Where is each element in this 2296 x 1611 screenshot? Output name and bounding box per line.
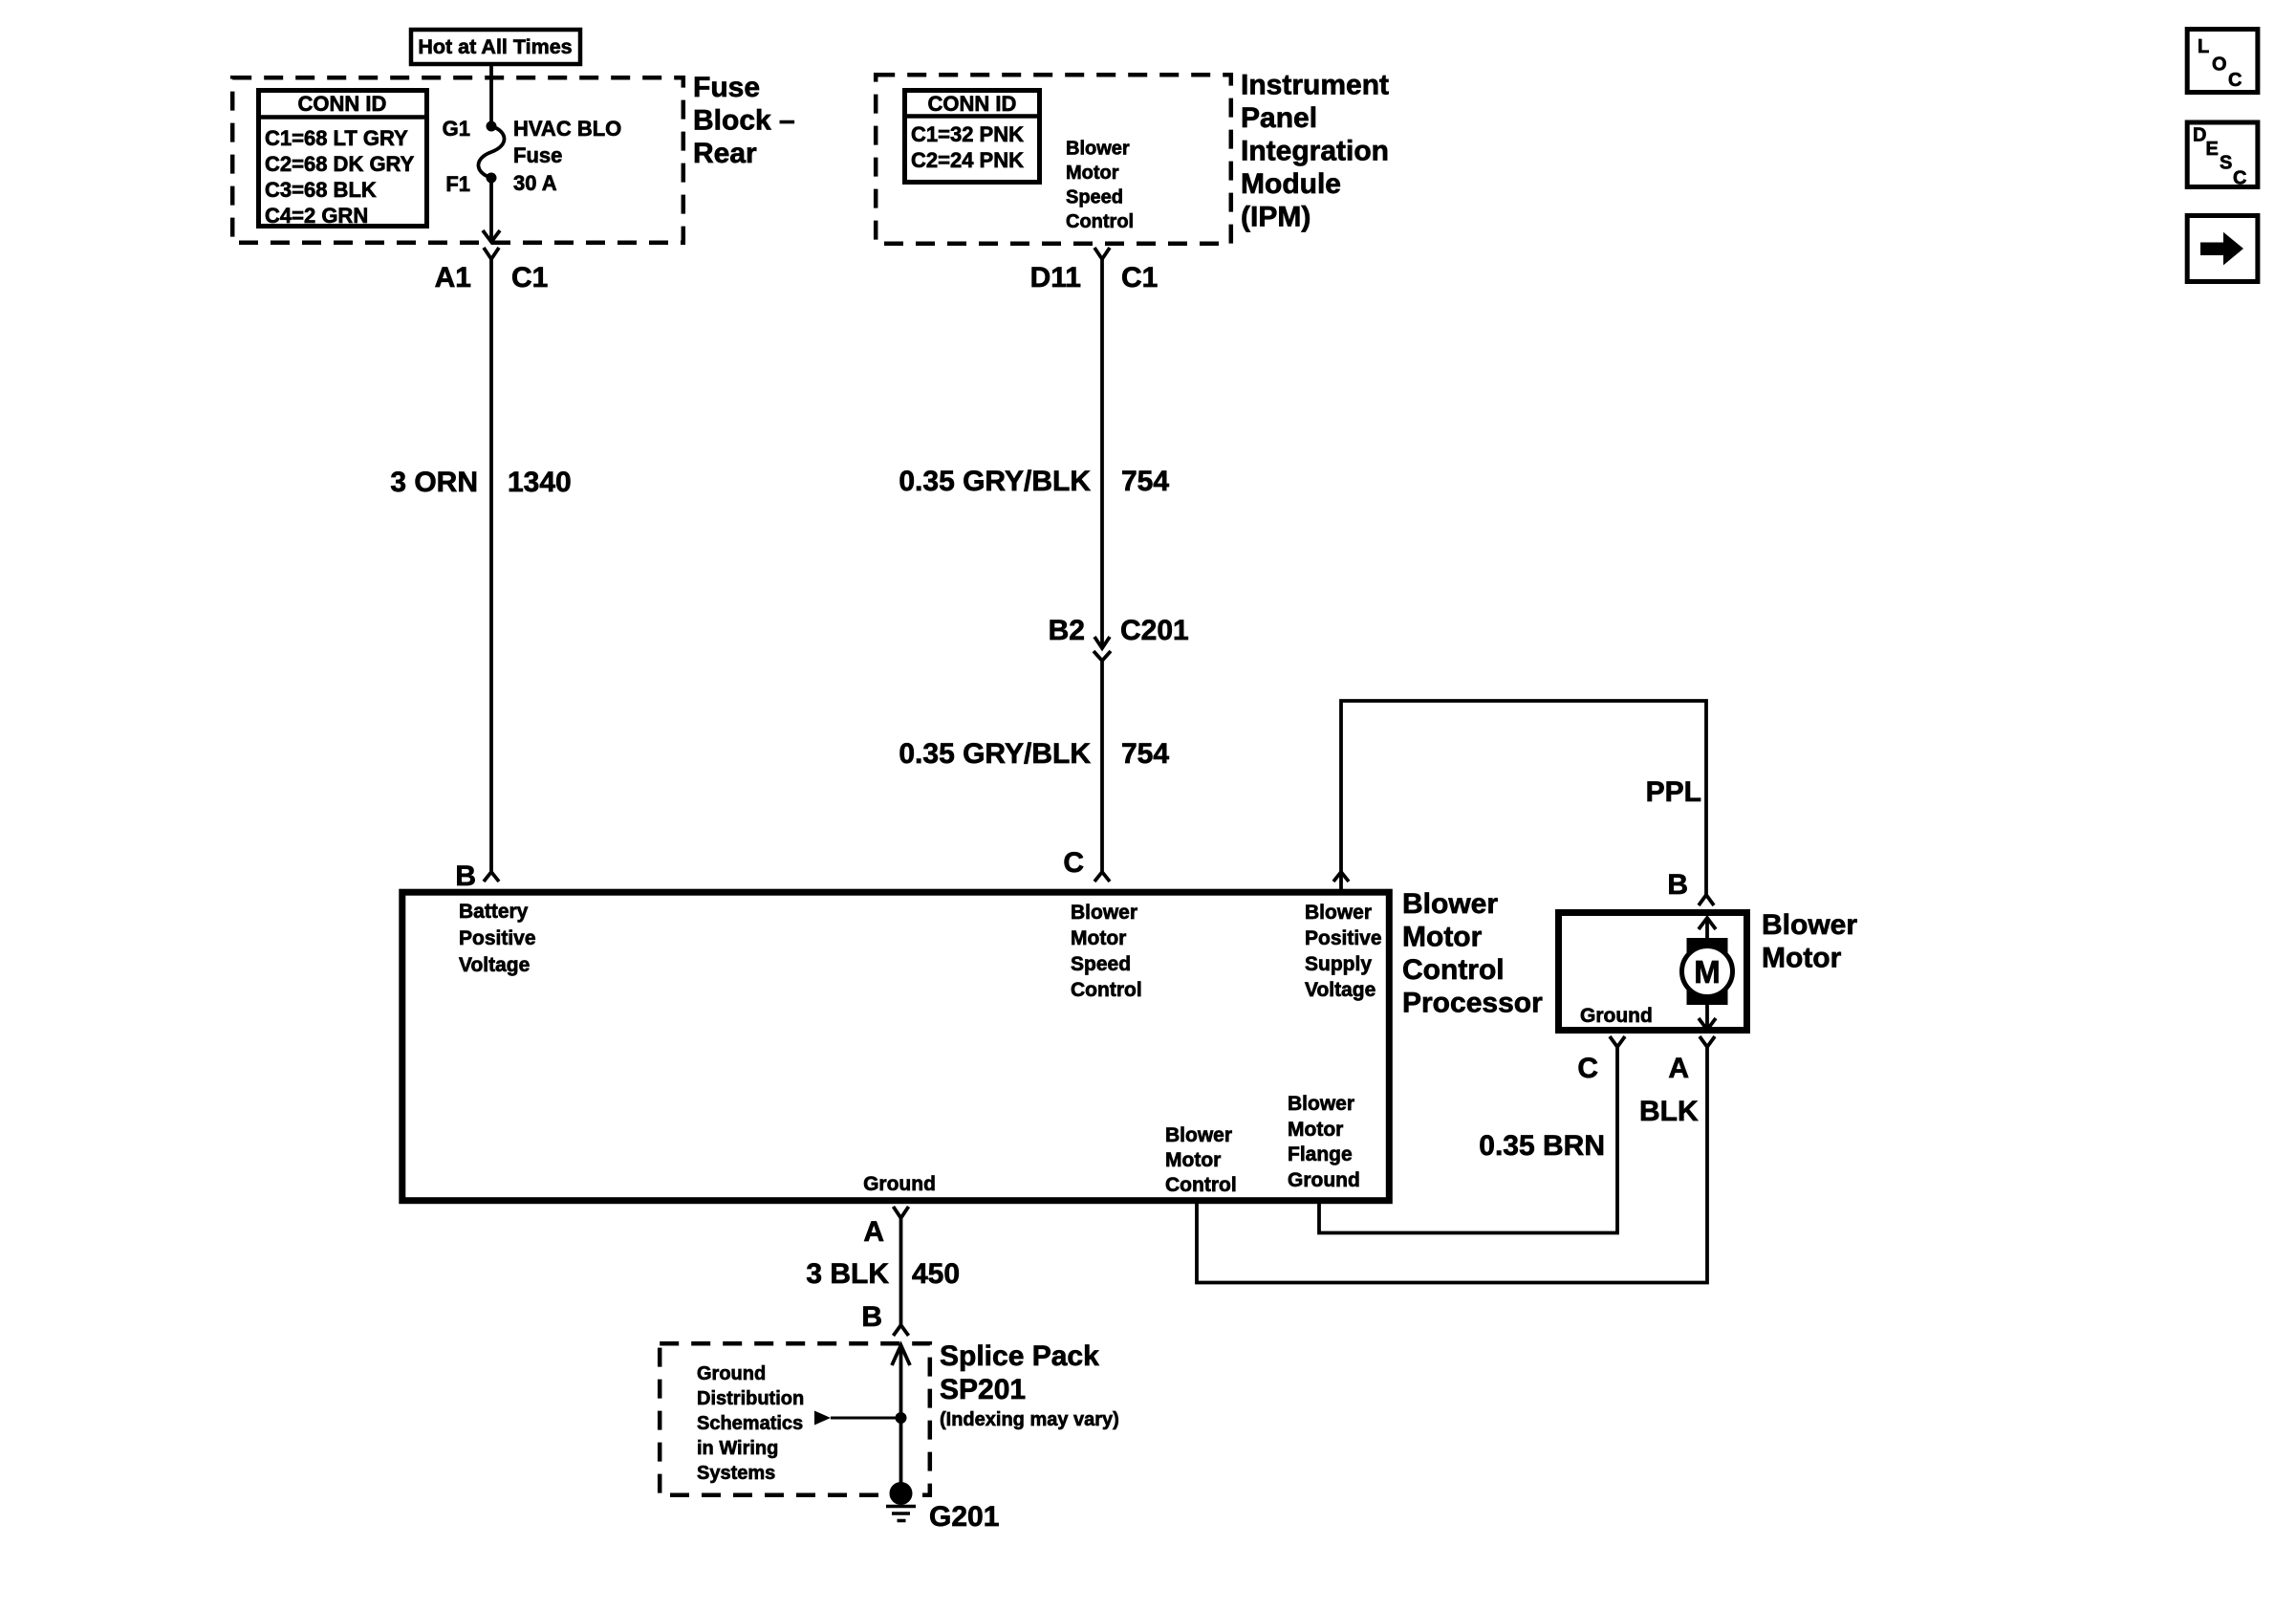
svg-text:E: E: [2206, 139, 2219, 160]
svg-text:Voltage: Voltage: [459, 954, 530, 976]
fuse F1 HVAC BLO 30 A: [478, 121, 504, 184]
splice wire with up arrow to G201: [892, 1345, 910, 1493]
svg-text:B2: B2: [1049, 615, 1085, 646]
svg-text:Fuse: Fuse: [513, 143, 562, 167]
svg-text:C1=68 LT GRY: C1=68 LT GRY: [265, 126, 408, 150]
wire from fuse to A1 with arrowhead: [483, 178, 500, 242]
svg-text:C2=24 PNK: C2=24 PNK: [911, 148, 1024, 172]
svg-text:G1: G1: [443, 117, 470, 141]
connector B2 / C201 (arrow + fork): [1049, 615, 1189, 661]
label Blower Motor: [1762, 909, 1857, 974]
hot feed box "Hot at All Times": [411, 30, 580, 64]
svg-text:C1: C1: [1121, 262, 1158, 294]
blower motor control processor box: [402, 892, 1390, 1200]
pin name Blower Motor Speed Control: [1071, 902, 1142, 1001]
svg-text:Blower: Blower: [1762, 909, 1857, 941]
svg-text:450: 450: [912, 1258, 960, 1290]
svg-text:O: O: [2212, 54, 2227, 76]
svg-text:BLK: BLK: [1639, 1096, 1699, 1127]
svg-text:Ground: Ground: [697, 1363, 766, 1384]
svg-text:Panel: Panel: [1241, 102, 1317, 134]
svg-text:1340: 1340: [508, 467, 572, 498]
label Splice Pack SP201: [940, 1340, 1119, 1430]
svg-text:0.35 BRN: 0.35 BRN: [1479, 1130, 1605, 1162]
motor M symbol with brushes: [1682, 918, 1733, 1030]
svg-text:754: 754: [1121, 466, 1169, 497]
svg-text:Blower: Blower: [1071, 902, 1137, 924]
wire label 0.35 GRY/BLK | 754: [899, 738, 1169, 770]
svg-text:Motor: Motor: [1071, 927, 1126, 949]
svg-text:S: S: [2220, 153, 2232, 174]
svg-text:Ground: Ground: [1288, 1169, 1360, 1191]
connector fork at C pin: [1094, 872, 1110, 882]
svg-text:C201: C201: [1120, 615, 1189, 646]
svg-text:B: B: [861, 1301, 882, 1333]
svg-text:Hot at All Times: Hot at All Times: [418, 35, 572, 58]
wire 0.35 GRY/BLK 754 (upper segment): [1100, 259, 1104, 648]
note Ground Distribution Schematics in Wiring Systems: [697, 1363, 804, 1484]
svg-text:Positive: Positive: [1305, 927, 1382, 949]
svg-text:C: C: [2228, 70, 2242, 91]
svg-text:in Wiring: in Wiring: [697, 1438, 778, 1459]
svg-text:Motor: Motor: [1066, 163, 1119, 184]
icon LOC: [2187, 30, 2258, 93]
svg-text:Motor: Motor: [1165, 1149, 1221, 1171]
IPM dashed box (Instrument Panel Integration Module): [876, 75, 1231, 244]
svg-text:Control: Control: [1071, 979, 1142, 1001]
connector fork at blower motor A: [1700, 1036, 1715, 1047]
svg-text:Schematics: Schematics: [697, 1413, 803, 1434]
svg-text:C1=32 PNK: C1=32 PNK: [911, 122, 1024, 146]
splice pack dashed box SP201: [660, 1343, 930, 1495]
svg-text:Motor: Motor: [1288, 1119, 1343, 1141]
svg-text:3 ORN: 3 ORN: [390, 467, 478, 498]
svg-text:CONN ID: CONN ID: [298, 92, 387, 116]
fuse block dashed box (Fuse Block - Rear): [232, 77, 683, 243]
svg-text:(Indexing may vary): (Indexing may vary): [940, 1409, 1119, 1430]
svg-text:C: C: [1577, 1053, 1598, 1084]
svg-text:G201: G201: [929, 1501, 999, 1533]
label Blower Motor Control Processor: [1402, 888, 1543, 1019]
svg-text:Voltage: Voltage: [1305, 979, 1375, 1001]
pin name Blower Motor Control: [1165, 1124, 1237, 1196]
wire 3 BLK 450 (ground): [899, 1218, 903, 1325]
svg-text:C2=68 DK GRY: C2=68 DK GRY: [265, 152, 415, 176]
svg-text:3 BLK: 3 BLK: [806, 1258, 889, 1290]
svg-text:Flange: Flange: [1288, 1143, 1353, 1165]
connector fork at ground pin: [894, 1207, 909, 1218]
svg-text:Blower: Blower: [1066, 139, 1130, 160]
CONN ID table (IPM): [902, 91, 1042, 183]
wire label 0.35 GRY/BLK | 754: [899, 466, 1169, 497]
svg-text:Control: Control: [1402, 954, 1505, 986]
wire label 3 BLK | 450: [806, 1258, 960, 1290]
svg-text:B: B: [455, 860, 476, 892]
svg-text:M: M: [1694, 954, 1721, 990]
connector fork at blower motor C: [1610, 1036, 1625, 1047]
svg-text:Blower: Blower: [1165, 1124, 1232, 1146]
svg-text:0.35 GRY/BLK: 0.35 GRY/BLK: [899, 738, 1091, 770]
svg-text:0.35 GRY/BLK: 0.35 GRY/BLK: [899, 466, 1091, 497]
svg-text:CONN ID: CONN ID: [928, 92, 1017, 116]
svg-text:754: 754: [1121, 738, 1169, 770]
svg-text:Battery: Battery: [459, 901, 529, 923]
svg-text:D: D: [2193, 125, 2206, 146]
svg-text:Block –: Block –: [693, 105, 795, 137]
fuse value label HVAC BLO Fuse 30 A: [513, 117, 621, 195]
connector fork at supply pin: [1333, 872, 1349, 882]
svg-text:Module: Module: [1241, 168, 1341, 200]
svg-text:30 A: 30 A: [513, 171, 557, 195]
svg-text:Motor: Motor: [1402, 922, 1483, 953]
svg-text:A: A: [1668, 1053, 1689, 1084]
connector fork at splice pack: [894, 1325, 909, 1336]
svg-text:Integration: Integration: [1241, 136, 1389, 167]
connector fork at blower motor B: [1699, 895, 1714, 905]
pin name Blower Positive Supply Voltage: [1305, 902, 1382, 1001]
pin name Battery Positive Voltage: [459, 901, 536, 976]
svg-text:Blower: Blower: [1288, 1093, 1354, 1115]
svg-text:Control: Control: [1066, 211, 1134, 232]
svg-text:Processor: Processor: [1402, 988, 1543, 1019]
svg-text:HVAC BLO: HVAC BLO: [513, 117, 621, 141]
label Instrument Panel Integration Module (IPM): [1241, 70, 1389, 233]
svg-text:C1: C1: [511, 262, 548, 294]
wire BLK (blower motor control to blower motor A): [1197, 1047, 1707, 1283]
svg-text:Systems: Systems: [697, 1463, 775, 1484]
wire 0.35 GRY/BLK 754 (lower segment): [1100, 661, 1104, 872]
blower motor box: [1559, 913, 1747, 1031]
pin name Blower Motor Flange Ground: [1288, 1093, 1360, 1191]
svg-text:A1: A1: [435, 262, 471, 294]
svg-text:Blower: Blower: [1402, 888, 1498, 920]
icon arrow (next page): [2187, 216, 2258, 282]
svg-text:Distribution: Distribution: [697, 1388, 804, 1409]
svg-text:B: B: [1667, 869, 1688, 901]
svg-text:C: C: [1063, 847, 1084, 879]
label Fuse Block - Rear: [693, 72, 795, 169]
PPL wire (blower positive supply to blower motor B): [1341, 701, 1706, 895]
svg-text:Speed: Speed: [1071, 953, 1131, 975]
svg-text:D11: D11: [1030, 262, 1081, 294]
svg-text:(IPM): (IPM): [1241, 202, 1310, 233]
svg-text:Ground: Ground: [863, 1173, 936, 1195]
svg-text:Ground: Ground: [1580, 1005, 1653, 1027]
connector D11 / C1: [1030, 248, 1159, 294]
svg-text:Control: Control: [1165, 1174, 1237, 1196]
svg-text:Positive: Positive: [459, 927, 536, 949]
svg-text:C: C: [2233, 168, 2246, 189]
wire 3 ORN 1340 (battery feed): [489, 259, 493, 872]
svg-text:A: A: [863, 1216, 884, 1248]
svg-text:Fuse: Fuse: [693, 72, 760, 103]
connector A1 / C1: [435, 248, 549, 294]
connector fork at B pin: [484, 872, 499, 882]
svg-text:Supply: Supply: [1305, 953, 1372, 975]
CONN ID table (fuse block): [256, 91, 429, 229]
svg-text:Rear: Rear: [693, 138, 757, 169]
svg-text:Blower: Blower: [1305, 902, 1372, 924]
svg-text:C4=2 GRN: C4=2 GRN: [265, 204, 368, 228]
svg-text:SP201: SP201: [940, 1374, 1026, 1405]
svg-text:Splice Pack: Splice Pack: [940, 1340, 1099, 1372]
IPM pin label Blower Motor Speed Control: [1066, 139, 1134, 233]
svg-text:C3=68 BLK: C3=68 BLK: [265, 178, 377, 202]
ground terminal dot G201: [890, 1482, 913, 1505]
svg-text:Instrument: Instrument: [1241, 70, 1389, 101]
ground distribution reference triangle and lead: [814, 1411, 901, 1426]
svg-text:PPL: PPL: [1646, 776, 1701, 808]
svg-text:F1: F1: [445, 172, 470, 196]
svg-text:Speed: Speed: [1066, 187, 1123, 208]
icon DESC: [2187, 122, 2258, 189]
ground symbol: [886, 1507, 916, 1521]
junction dot SP201: [896, 1412, 907, 1424]
svg-text:L: L: [2198, 36, 2209, 57]
svg-text:Motor: Motor: [1762, 943, 1842, 974]
wire 0.35 BRN (flange ground to blower motor C): [1319, 1047, 1617, 1233]
wire label 3 ORN | 1340: [390, 467, 571, 498]
wire from Hot at All Times into fuse block: [489, 64, 493, 124]
